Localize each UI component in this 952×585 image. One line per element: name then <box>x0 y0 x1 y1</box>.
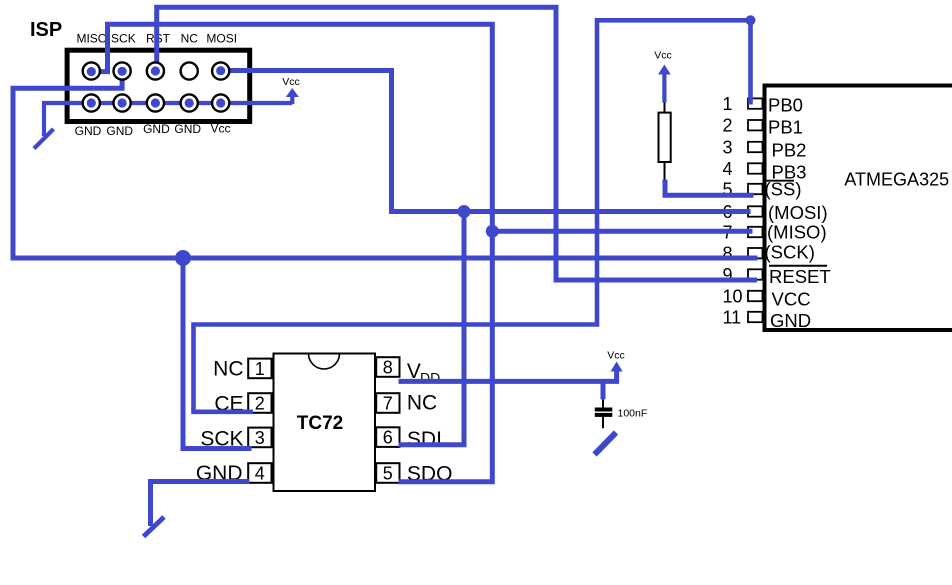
svg-text:PB2: PB2 <box>772 140 807 161</box>
svg-text:7: 7 <box>383 393 393 413</box>
svg-text:Vcc: Vcc <box>282 76 300 88</box>
svg-text:2: 2 <box>723 116 733 136</box>
svg-text:Vcc: Vcc <box>607 350 625 362</box>
svg-text:GND: GND <box>75 124 102 138</box>
svg-text:1: 1 <box>255 359 265 379</box>
svg-text:3: 3 <box>255 428 265 448</box>
svg-text:TC72: TC72 <box>297 413 343 434</box>
svg-text:3: 3 <box>723 137 733 157</box>
svg-text:NC: NC <box>181 32 199 46</box>
svg-text:SCK: SCK <box>111 32 136 46</box>
svg-text:2: 2 <box>255 393 265 413</box>
svg-text:PB0: PB0 <box>768 95 803 116</box>
svg-text:ATMEGA325: ATMEGA325 <box>844 170 949 190</box>
svg-text:NC: NC <box>213 358 243 381</box>
svg-text:ISP: ISP <box>30 19 62 41</box>
svg-text:SDI: SDI <box>407 428 442 451</box>
svg-text:GND: GND <box>174 122 201 136</box>
svg-text:MISO: MISO <box>76 32 107 46</box>
svg-text:4: 4 <box>723 159 733 179</box>
svg-text:8: 8 <box>383 357 393 377</box>
svg-text:(SCK): (SCK) <box>765 242 815 263</box>
svg-text:10: 10 <box>723 286 743 306</box>
svg-text:VCC: VCC <box>772 289 811 310</box>
svg-text:(MISO): (MISO) <box>767 222 827 243</box>
svg-text:1: 1 <box>723 94 733 114</box>
svg-text:GND: GND <box>143 122 170 136</box>
svg-text:NC: NC <box>407 392 437 415</box>
svg-text:5: 5 <box>383 463 393 483</box>
svg-text:(MOSI): (MOSI) <box>768 202 828 223</box>
svg-text:GND: GND <box>770 310 811 331</box>
svg-text:Vcc: Vcc <box>654 50 672 62</box>
svg-text:PB1: PB1 <box>768 117 803 138</box>
svg-text:(SS): (SS) <box>765 179 802 200</box>
svg-text:GND: GND <box>106 124 133 138</box>
svg-text:4: 4 <box>255 463 265 483</box>
svg-text:RESET: RESET <box>769 266 831 287</box>
svg-text:Vcc: Vcc <box>210 122 230 136</box>
svg-text:100nF: 100nF <box>618 408 648 420</box>
svg-text:MOSI: MOSI <box>206 32 237 46</box>
svg-text:6: 6 <box>383 428 393 448</box>
svg-text:11: 11 <box>723 307 742 327</box>
